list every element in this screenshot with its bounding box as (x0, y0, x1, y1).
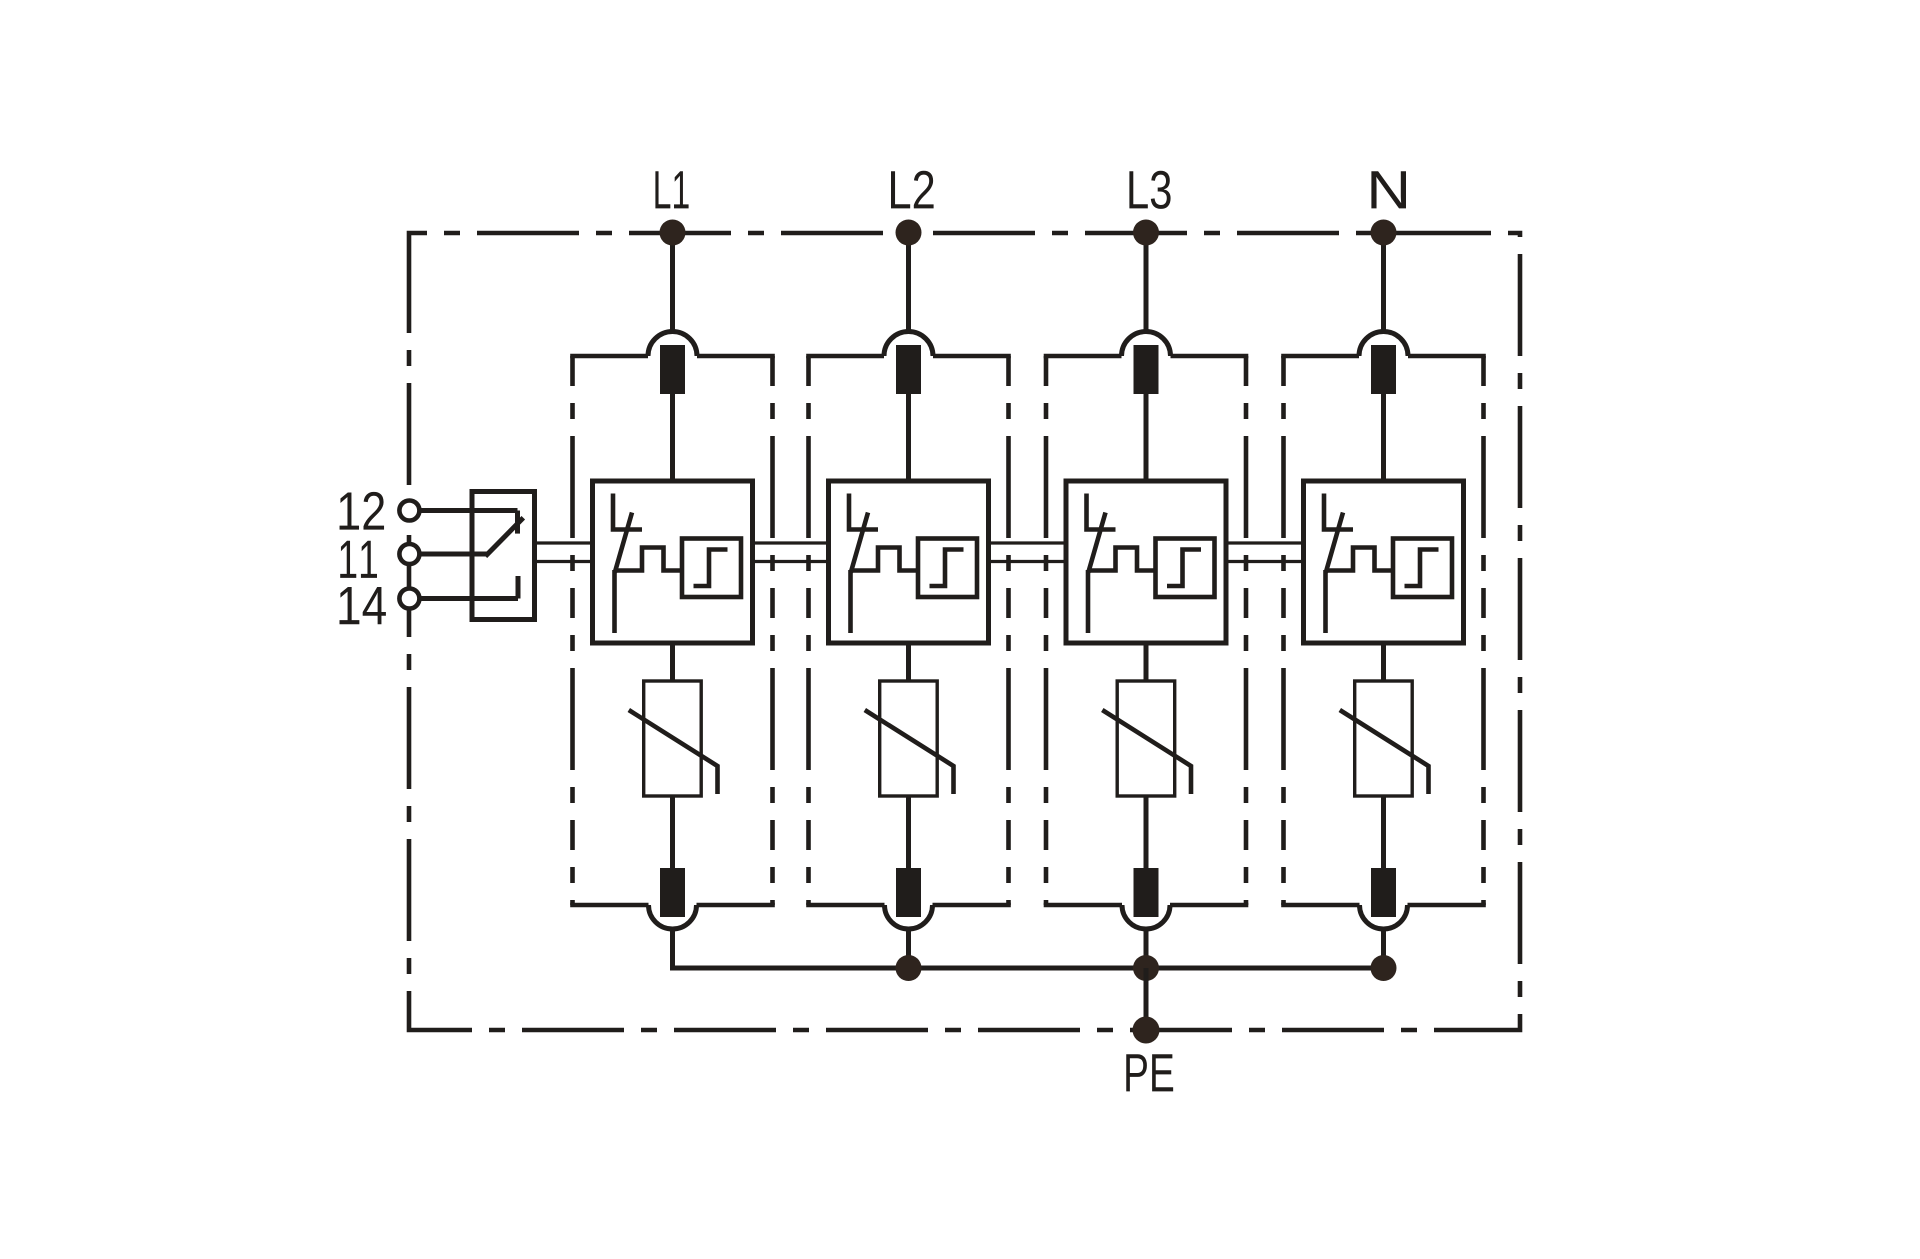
plug-in contact bottom arc module 1 (649, 905, 697, 929)
node terminal L1 (660, 220, 686, 246)
varistor MOV2 diagonal stroke (865, 710, 954, 794)
plug-in contact top pin module 2 (896, 345, 921, 394)
step-function symbol module 3 (1167, 550, 1201, 587)
step-function symbol module 1 (694, 550, 728, 587)
wire disconnector to varistor module 4 (1381, 643, 1386, 681)
thermal trip zigzag module 2 (853, 548, 919, 571)
plug-in contact bottom pin module 1 (660, 868, 685, 917)
plug-in contact top arc module 1 (648, 332, 697, 357)
trigger unit box module 1 (682, 539, 741, 598)
disconnector switch blade module 4 (1326, 513, 1344, 634)
plug-in contact bottom arc module 4 (1360, 905, 1408, 929)
module 4 (N) dash-dot box left side (1281, 356, 1286, 905)
trigger unit box module 3 (1156, 539, 1215, 598)
wire disconnector to varistor module 2 (906, 643, 911, 681)
disconnector switch blade module 3 (1088, 513, 1106, 634)
terminal label L2 (891, 171, 934, 209)
module 1 (L1) dash-dot box right side (770, 356, 775, 905)
module 4 (N) box top edge (1281, 354, 1486, 359)
terminal label 12 (340, 492, 385, 530)
changeover contact 14 fixed tick (516, 576, 521, 599)
wire terminal 14 to changeover contact (419, 596, 518, 601)
varistor MOV4 body (1355, 681, 1413, 796)
wire bus upper segment 4 (1227, 541, 1304, 544)
plug-in contact bottom arc module 2 (885, 905, 933, 929)
module 2 (L2) dash-dot box left side (806, 356, 811, 905)
wire L2 terminal to plug contact (906, 233, 911, 335)
junction node on PE bus at L2 (896, 955, 922, 981)
wire terminal 11 to changeover contact (419, 552, 487, 557)
module 3 (L3) box bottom edge (1044, 903, 1249, 908)
step-function symbol module 2 (930, 550, 964, 587)
wire L3 terminal to plug contact (1144, 233, 1149, 335)
changeover contact blade (11-12) (485, 518, 523, 557)
module 2 (L2) dash-dot box right side (1006, 356, 1011, 905)
wire plug contact to disconnector module 4 (1381, 394, 1386, 481)
node terminal N (1371, 220, 1397, 246)
plug-in contact top arc module 3 (1122, 332, 1171, 357)
plug-in contact bottom pin module 4 (1371, 868, 1396, 917)
wire varistor to bottom plug contact module 3 (1144, 796, 1149, 868)
terminal label L1 (655, 171, 688, 208)
plug-in contact top pin module 4 (1371, 345, 1396, 394)
terminal 11 open circle (399, 544, 419, 564)
disconnector switch blade module 2 (851, 513, 869, 634)
wire plug contact to disconnector module 2 (906, 394, 911, 481)
module 3 (L3) dash-dot box right side (1244, 356, 1249, 905)
disconnector fixed lead module 2 (847, 494, 878, 530)
wire bottom contact to PE bus module 1 (670, 929, 675, 968)
wire PE bus (670, 966, 1384, 971)
wire L1 terminal to plug contact (670, 233, 675, 335)
wire N terminal to plug contact (1381, 233, 1386, 335)
terminal label 14 (340, 587, 386, 624)
disconnector switch blade module 1 (615, 513, 633, 634)
varistor MOV4 diagonal stroke (1340, 710, 1429, 794)
varistor MOV3 body (1117, 681, 1175, 796)
wire bottom contact to PE bus module 3 (1144, 929, 1149, 968)
terminal label 11 (340, 541, 377, 578)
wire plug contact to disconnector module 1 (670, 394, 675, 481)
wire bottom contact to PE bus module 4 (1381, 929, 1386, 968)
node terminal L3 (1133, 220, 1159, 246)
wire bus lower segment 2 (753, 560, 829, 563)
wire PE bus to PE terminal (1144, 968, 1149, 1030)
wire varistor to bottom plug contact module 4 (1381, 796, 1386, 868)
trigger unit box module 4 (1393, 539, 1452, 598)
plug-in contact top pin module 3 (1134, 345, 1159, 394)
disconnection device box U1 (593, 481, 753, 643)
disconnection device box U2 (829, 481, 989, 643)
module 1 (L1) box bottom edge (570, 903, 775, 908)
plug-in contact top pin module 1 (660, 345, 685, 394)
terminal label L3 (1129, 171, 1170, 209)
remote signalling switch box S1 (472, 492, 535, 620)
terminal 12 open circle (399, 501, 419, 521)
junction node on PE bus at N (1371, 955, 1397, 981)
step-function symbol module 4 (1405, 550, 1439, 587)
module 3 (L3) dash-dot box left side (1044, 356, 1049, 905)
wire bottom contact to PE bus module 2 (906, 929, 911, 968)
wire plug contact to disconnector module 3 (1144, 394, 1149, 481)
node terminal L2 (896, 220, 922, 246)
junction node on PE bus at L3 (1133, 955, 1159, 981)
terminal label PE (1126, 1054, 1173, 1091)
enclosure dash-dot border (409, 233, 1520, 1030)
wire bus lower segment 3 (989, 560, 1066, 563)
wire bus lower segment 4 (1227, 560, 1304, 563)
module 2 (L2) box bottom edge (806, 903, 1011, 908)
disconnection device box U3 (1066, 481, 1226, 643)
disconnector fixed lead module 4 (1322, 494, 1353, 530)
disconnection device box U4 (1304, 481, 1464, 643)
disconnector fixed lead module 1 (611, 494, 642, 530)
plug-in contact bottom pin module 3 (1134, 868, 1159, 917)
varistor MOV1 body (644, 681, 702, 796)
plug-in contact top arc module 4 (1359, 332, 1408, 357)
module 3 (L3) box top edge (1044, 354, 1249, 359)
wire disconnector to varistor module 3 (1144, 643, 1149, 681)
trigger unit box module 2 (918, 539, 977, 598)
terminal 14 open circle (399, 589, 419, 609)
wire bus upper segment 2 (753, 541, 829, 544)
wire terminal 12 to changeover contact (419, 508, 517, 513)
wire varistor to bottom plug contact module 1 (670, 796, 675, 868)
module 4 (N) dash-dot box right side (1481, 356, 1486, 905)
varistor MOV2 body (880, 681, 938, 796)
thermal trip zigzag module 4 (1328, 548, 1394, 571)
thermal trip zigzag module 1 (617, 548, 683, 571)
wire bus upper segment 3 (989, 541, 1066, 544)
varistor MOV3 diagonal stroke (1102, 710, 1191, 794)
plug-in contact top arc module 2 (884, 332, 933, 357)
disconnector fixed lead module 3 (1084, 494, 1115, 530)
varistor MOV1 diagonal stroke (629, 710, 718, 794)
wire varistor to bottom plug contact module 2 (906, 796, 911, 868)
module 4 (N) box bottom edge (1281, 903, 1486, 908)
wire bus lower segment 1 (535, 560, 593, 563)
module 1 (L1) box top edge (570, 354, 775, 359)
wire disconnector to varistor module 1 (670, 643, 675, 681)
thermal trip zigzag module 3 (1090, 548, 1156, 571)
plug-in contact bottom arc module 3 (1122, 905, 1170, 929)
terminal label N (1371, 171, 1406, 208)
module 2 (L2) box top edge (806, 354, 1011, 359)
wire bus upper segment 1 (535, 541, 593, 544)
plug-in contact bottom pin module 2 (896, 868, 921, 917)
changeover contact 12 fixed tick (515, 511, 520, 534)
node terminal PE (1133, 1017, 1160, 1044)
module 1 (L1) dash-dot box left side (570, 356, 575, 905)
